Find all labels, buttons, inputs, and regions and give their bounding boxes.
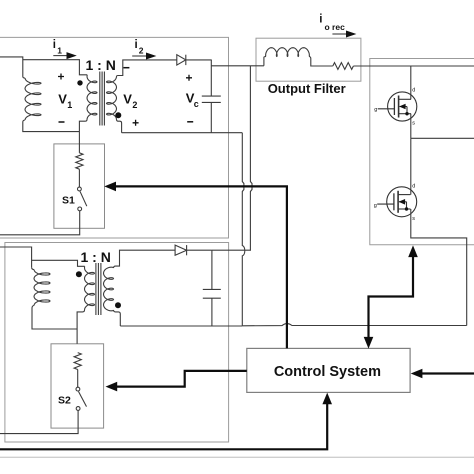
svg-text:o rec: o rec [325,22,346,32]
transformer T1 core [100,72,105,126]
wire: circuit1 branch to transformer [23,60,87,75]
wire: T1 primary bottom stub [79,120,87,132]
svg-text:1: 1 [57,46,62,56]
svg-text:1 : N: 1 : N [86,57,116,73]
svg-text:S1: S1 [62,195,75,207]
switch S2: wire to contact [77,370,79,388]
wire: circuit2 branch to transformer [32,260,85,266]
wire: mid rail to right edge [411,137,474,139]
wire: L2 top connect [32,267,34,269]
wire: cap C2 top lead [211,250,213,289]
wire: L2 bottom to return [32,305,77,329]
wire: T1 secondary bottom stub [117,120,122,133]
switch S1: blade [80,191,87,206]
wire: T1 primary top stub [86,75,88,77]
control line from right edge into Control System [418,372,474,374]
transformer T2 secondary coil [104,267,114,311]
svg-text:i: i [135,39,138,51]
plus V2 [133,120,139,126]
output filter box [256,38,361,81]
S2 box [51,344,104,428]
wire: T2 secondary top stub [114,250,176,268]
svg-text:g: g [374,107,377,113]
output filter inductor [266,48,310,57]
control line to S2 (from Control System left) [112,371,247,387]
wire: D2 to cap [187,249,212,251]
polarity dot T2 secondary [115,302,121,308]
control line bottom feedback into Control System [0,399,327,449]
svg-text:i: i [319,14,322,26]
transformer T2 primary coil [85,268,95,310]
cell box 2 (bottom converter cell) [5,243,229,443]
arrow i2 [132,55,147,57]
switch S2: bottom contact [76,407,80,411]
wire: circuit2 input [0,247,32,267]
wire: T2 secondary bottom stub [114,310,121,326]
switch S2: top contact [76,387,80,391]
wire: cap C2 bottom lead [211,298,213,326]
plus Vc [186,75,192,81]
node: vertical bus A (rect1- to rect2-) with hops [242,133,245,326]
svg-text:d: d [412,184,415,190]
svg-text:i: i [53,39,56,51]
wire: S2 drop [76,329,78,344]
minus V2 [123,67,129,69]
svg-text:Output Filter: Output Filter [268,81,346,96]
wire: mid rail down to M2 drain [410,138,412,194]
svg-text:d: d [412,88,415,94]
output filter inductor lead [264,57,266,66]
cell box 1 (top converter cell) [0,37,229,238]
feedback arrow into Control System top [364,337,374,349]
node: vertical bus B (rect+ parallel) with hop [250,66,252,251]
wire: M1 drain drop [410,66,412,99]
switch S1: bottom contact [78,207,82,211]
wire: T2 primary bottom stub [77,310,84,329]
wire: S1 drop [78,132,80,153]
wire: filter output rail to bridge and right edge [353,65,474,67]
transformer T2 core [96,263,101,315]
svg-text:c: c [194,99,199,109]
S1 box [54,144,105,228]
wire: rectifier1 + output to filter [211,65,264,67]
plus V1 [58,74,64,80]
switch S2: bottom wire out to left edge [0,410,78,433]
diode D2 [175,245,187,255]
transformer T1 secondary coil [107,77,117,120]
minus V1 [59,121,65,123]
polarity dot T2 primary [76,271,82,277]
inductor L1 (circuit1 input) [25,78,41,120]
capacitor C1 [202,96,221,102]
wire: bus B join circuit2 output [212,249,251,251]
wire: cap C1 top lead [210,60,212,96]
svg-text:2: 2 [132,100,137,110]
wire: T2 primary top stub [84,266,86,268]
output filter resistor [333,63,354,70]
wire: L1 bottom to primary bottom [23,120,80,132]
wire: rectifier1 - rail [122,132,243,134]
svg-text:2: 2 [139,46,144,56]
polarity dot T1 secondary [115,112,121,118]
switch S1: resistor [76,153,83,169]
wire: return rail with hop over thick line [242,324,466,326]
svg-text:1 : N: 1 : N [81,249,111,265]
wire: L1 top connect [23,77,25,79]
arrow i1 [53,55,68,57]
arrow io rec [332,33,347,35]
diode D1 [177,55,186,65]
inverter bridge box [370,59,474,245]
wire: D1 to cap / filter [186,59,212,61]
svg-text:g: g [374,203,377,209]
switch S1: top contact [78,187,82,191]
Control System box [247,348,410,392]
svg-text:Control System: Control System [274,364,381,380]
wire: rectifier2 - rail [120,325,242,327]
svg-text:1: 1 [67,100,72,110]
switch S2: blade [79,392,87,407]
control line bridge gate drive (up arrow into bridge box) [369,253,414,342]
polarity dot T1 primary [77,80,82,85]
svg-text:S2: S2 [58,394,71,406]
control line to S1 (from Control System top) [112,186,287,348]
output filter inductor right lead [309,57,333,67]
wire: T1 secondary top stub [117,60,177,77]
wire: cap C1 bottom lead [210,102,212,132]
inductor L2 (circuit2 input) [34,270,50,306]
wire: M2 source to bottom rail [411,209,467,326]
minus Vc [187,121,193,123]
wire: circuit1 input top [0,57,23,77]
switch S1: bottom wire out to left edge [0,211,80,235]
switch S2: resistor [74,353,81,370]
wire: M1 source to mid rail [410,114,412,139]
faint page rule at bottom [0,456,474,458]
svg-text:V: V [123,92,132,107]
transformer T1 primary coil [87,77,97,120]
svg-text:s: s [412,121,415,127]
svg-text:s: s [412,216,415,222]
switch S1: wire to contact [78,169,80,187]
capacitor C2 [203,289,221,298]
svg-text:V: V [58,91,67,106]
